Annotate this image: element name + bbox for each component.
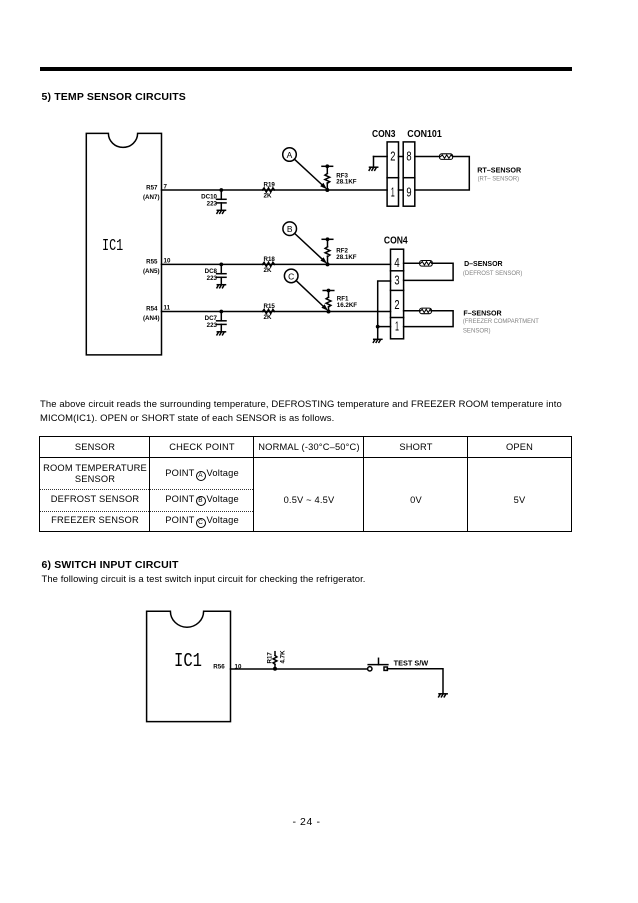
wire pin10 to switch [231,668,368,670]
wire CON4 pin2 to F sensor loop [404,311,454,327]
ground (DC7) [217,332,226,335]
node junction RF2/wire [326,262,330,266]
svg-text:2K: 2K [264,193,272,200]
wire switch to ground [387,669,443,694]
svg-text:IC1: IC1 [102,236,123,255]
node junction RF1/wire [327,310,331,314]
svg-text:CON3: CON3 [372,129,396,140]
node junction DC10 [219,188,223,192]
node junction DC8 [219,263,223,267]
svg-text:IC1: IC1 [174,650,202,672]
svg-text:R15: R15 [264,303,276,310]
svg-text:16.2KF: 16.2KF [337,302,358,309]
ground (DC8) [217,285,226,288]
svg-text:9: 9 [406,186,411,200]
svg-text:R19: R19 [264,182,276,189]
node junction RF3/wire [325,188,329,192]
wire pin7 row [162,189,388,191]
wire pin10 row [162,263,391,265]
svg-text:8: 8 [406,150,411,164]
svg-text:11: 11 [164,305,171,312]
check point A callout [283,148,327,190]
svg-text:1: 1 [391,186,395,200]
svg-text:A: A [287,150,293,160]
capacitor DC7 223 [205,312,226,332]
paragraph [40,398,562,426]
svg-text:4.7K: 4.7K [279,650,286,664]
svg-text:R57: R57 [146,184,158,191]
svg-text:223: 223 [207,275,218,282]
svg-text:2K: 2K [264,314,272,321]
svg-text:C: C [288,271,294,281]
node junction DC7 [219,310,223,314]
svg-text:(AN4): (AN4) [143,315,160,322]
svg-text:TEST S/W: TEST S/W [394,661,429,668]
resistor R17 4.7K (pull-up, vertical) [267,650,287,669]
resistor RF2 28.1KF (pull-up) [322,237,357,264]
resistor R15 2K [263,303,276,321]
heading 6 [42,559,179,571]
svg-text:R17: R17 [267,652,274,664]
svg-text:223: 223 [207,201,218,208]
check point B callout [283,222,327,264]
top rule bar [40,67,572,71]
resistor R19 2K [263,182,276,200]
svg-text:(AN7): (AN7) [143,194,160,201]
ground (TEST S/W) [439,694,448,697]
svg-text:28.1KF: 28.1KF [336,178,357,185]
svg-text:R56: R56 [213,663,225,670]
page number [0,816,613,828]
thermistor F sensor element [420,308,432,314]
wire CON3 pin2 to ground [374,157,388,167]
svg-text:RT–SENSOR: RT–SENSOR [477,166,521,175]
capacitor DC10 223 [201,190,226,210]
switch TEST S/W (push button) [368,658,429,671]
svg-text:R18: R18 [264,256,276,263]
svg-text:(FREEZER COMPARTMENT: (FREEZER COMPARTMENT [463,318,539,325]
label F-SENSOR [463,308,539,334]
svg-text:(AN5): (AN5) [143,268,160,275]
svg-text:R54: R54 [146,306,158,313]
ground (CON4) [373,339,382,342]
svg-text:2: 2 [394,298,399,312]
pin 11 label R54 (AN4) [143,305,171,323]
svg-text:2: 2 [390,150,395,164]
wire pin11 row [162,311,391,313]
resistor R18 2K [263,256,276,274]
ground (CON3 pin2) [369,167,378,170]
IC U1b (micom IC1, test switch circuit) [147,611,231,721]
label RT-SENSOR [477,166,521,183]
node junction R17 [273,667,277,671]
svg-text:(RT– SENSOR): (RT– SENSOR) [478,176,519,183]
svg-text:28.1KF: 28.1KF [336,254,357,261]
wire CON4 pin3/pin1 to ground [376,281,391,339]
resistor RF3 28.1KF (pull-up) [322,164,357,190]
svg-text:SENSOR): SENSOR) [463,328,491,335]
svg-text:3: 3 [394,274,399,288]
wire CON3-CON101 pin links [399,157,404,191]
thermistor D sensor element [420,261,433,267]
ground (DC10) [217,210,226,213]
svg-text:B: B [287,224,293,234]
pin 7 label R57 (AN7) [143,183,168,201]
pin 10 label R55 (AN5) [143,258,171,276]
svg-text:F–SENSOR: F–SENSOR [463,308,502,317]
svg-text:2K: 2K [264,267,272,274]
connector CON101 [403,129,442,206]
heading 5 [42,91,186,103]
svg-text:CON101: CON101 [407,129,442,140]
capacitor DC8 223 [205,264,226,284]
connector CON3 [372,129,399,206]
svg-text:D–SENSOR: D–SENSOR [464,259,503,268]
label D-SENSOR [463,259,523,277]
svg-text:(DEFROST SENSOR): (DEFROST SENSOR) [463,270,523,277]
thermistor RT sensor element [440,154,453,160]
resistor RF1 16.2KF (pull-up) [323,289,357,312]
table [39,436,572,532]
connector CON4 [384,235,408,338]
svg-text:223: 223 [207,322,218,329]
check point C callout [284,269,328,311]
svg-text:1: 1 [395,320,399,334]
pin label R56 / 10 [213,663,242,670]
wire CON4 pin4 to D sensor loop [404,263,454,280]
wire CON101 pin8 to RT sensor loop [415,157,470,191]
IC U1 (micom IC1) [86,133,161,355]
svg-text:4: 4 [394,256,399,270]
svg-text:CON4: CON4 [384,235,408,246]
svg-text:R55: R55 [146,259,158,266]
